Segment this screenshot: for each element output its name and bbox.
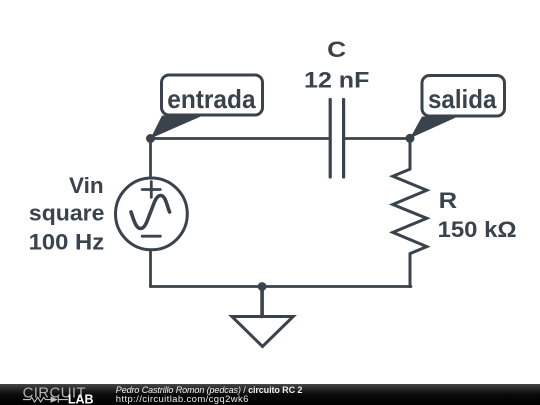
svg-text:R: R — [439, 188, 458, 213]
source sine wave — [131, 196, 170, 229]
capacitor C1 left plate — [329, 100, 332, 178]
ground symbol triangle — [232, 317, 293, 347]
wire top-left (node entrada to C left plate) — [151, 137, 329, 140]
source plus sign — [142, 182, 160, 198]
svg-text:LAB: LAB — [68, 393, 94, 405]
capacitor C1 right plate — [342, 100, 345, 178]
voltage source V1 circle — [115, 178, 187, 250]
svg-text:salida: salida — [428, 84, 497, 114]
wire bottom rail — [151, 285, 412, 288]
svg-text:square: square — [29, 200, 105, 225]
circuitlab logo wire-resistor-diode squiggle — [23, 396, 68, 402]
svg-text:http://circuitlab.com/cgq2wk6: http://circuitlab.com/cgq2wk6 — [116, 394, 249, 405]
wire ground stub — [260, 287, 264, 317]
footer bar — [0, 384, 540, 405]
svg-text:12 nF: 12 nF — [304, 67, 369, 92]
callout tail salida — [410, 117, 458, 139]
callout bubble salida — [422, 76, 505, 117]
node salida junction dot — [406, 134, 415, 143]
circuitlab logo diode triangle — [51, 396, 58, 402]
node entrada junction dot — [146, 134, 155, 143]
svg-text:150 kΩ: 150 kΩ — [438, 217, 517, 242]
svg-text:100 Hz: 100 Hz — [29, 229, 105, 254]
svg-text:Vin: Vin — [69, 173, 104, 198]
wire node entrada to source top — [149, 139, 152, 178]
callout bubble entrada — [162, 75, 263, 115]
wire source bottom to bottom rail — [149, 251, 152, 286]
callout tail entrada — [151, 116, 204, 139]
svg-text:entrada: entrada — [167, 84, 256, 114]
resistor R1 zigzag with leads — [393, 138, 427, 286]
ground junction dot — [258, 282, 267, 291]
source minus sign — [142, 235, 160, 238]
wire top-right (C right plate to node salida) — [345, 137, 410, 140]
svg-text:C: C — [327, 37, 346, 62]
